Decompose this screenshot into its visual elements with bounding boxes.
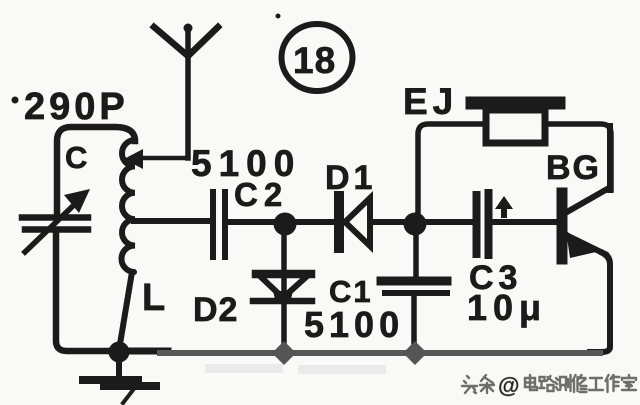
- 路: [540, 376, 554, 391]
- transistor BG: [562, 188, 609, 259]
- 工: [589, 378, 603, 390]
- svg-text:@: @: [498, 373, 519, 398]
- 头: [462, 376, 477, 393]
- variable capacitor C: [22, 189, 90, 252]
- wire C2 to node A: [225, 219, 285, 225]
- ground node (junction): [109, 342, 130, 363]
- 修: [573, 375, 587, 392]
- earphone EJ: [472, 103, 559, 143]
- figure number circle 18: [276, 14, 353, 92]
- wire node A to D1: [285, 219, 334, 225]
- wire EJ to collector rail: [545, 124, 611, 190]
- capacitor C1: [381, 281, 447, 293]
- wire C1 to bottom rail: [411, 296, 417, 348]
- node B (junction D1/C1/EJ/C3): [404, 213, 427, 236]
- 测: [555, 375, 571, 391]
- svg-text:10μ: 10μ: [467, 287, 547, 328]
- wire node A down to D2 and bottom: [281, 230, 287, 348]
- wire C3 to base: [492, 219, 557, 225]
- label 290P: [12, 86, 129, 128]
- diode D1: [339, 196, 370, 248]
- node A (junction C2/D1/D2): [274, 213, 297, 236]
- svg-text:D1: D1: [325, 159, 376, 197]
- wire loop top: [57, 127, 135, 214]
- svg-text:C: C: [65, 140, 87, 175]
- antenna: [154, 24, 218, 159]
- capacitor C2: [213, 192, 225, 257]
- wire coil bottom to ground node: [120, 272, 132, 344]
- svg-text:C2: C2: [234, 176, 288, 213]
- svg-text:BG: BG: [546, 149, 601, 187]
- wire collector rail up: [607, 126, 613, 190]
- 作: [606, 375, 620, 392]
- svg-text:EJ: EJ: [403, 81, 458, 122]
- polarity + of C3: [495, 196, 513, 218]
- diode D2: [253, 274, 312, 303]
- inductor L: [122, 140, 135, 272]
- ground: [83, 352, 156, 403]
- node C1-bottom (gray): [403, 341, 427, 365]
- svg-text:L: L: [142, 277, 165, 319]
- wire antenna to coil tap: [124, 149, 188, 169]
- svg-text:18: 18: [293, 40, 336, 81]
- wire emitter down to bottom rail: [590, 253, 610, 352]
- ghost watermark artifacts: [205, 364, 386, 374]
- svg-text:290P: 290P: [24, 86, 129, 128]
- 室: [622, 375, 636, 390]
- bottom rail gray segment: [160, 350, 600, 356]
- wire D1 to node B: [370, 219, 415, 225]
- wire left side down to bottom corner: [56, 232, 110, 351]
- wire node B down to C1: [413, 232, 419, 278]
- node D2-bottom (gray): [272, 341, 296, 365]
- svg-text:D2: D2: [193, 291, 238, 329]
- wire node B to C3: [415, 219, 472, 225]
- bottom rail black segment left: [112, 348, 168, 355]
- wire coil tap to C2: [134, 218, 208, 224]
- svg-text:5100: 5100: [304, 304, 404, 345]
- watermark 头条 @电路测修工作室 (hand-drawn vector glyphs): [462, 373, 636, 398]
- capacitor C3: [477, 193, 489, 255]
- 电: [525, 375, 537, 390]
- wire node B up to EJ: [418, 124, 486, 214]
- 条: [480, 375, 494, 393]
